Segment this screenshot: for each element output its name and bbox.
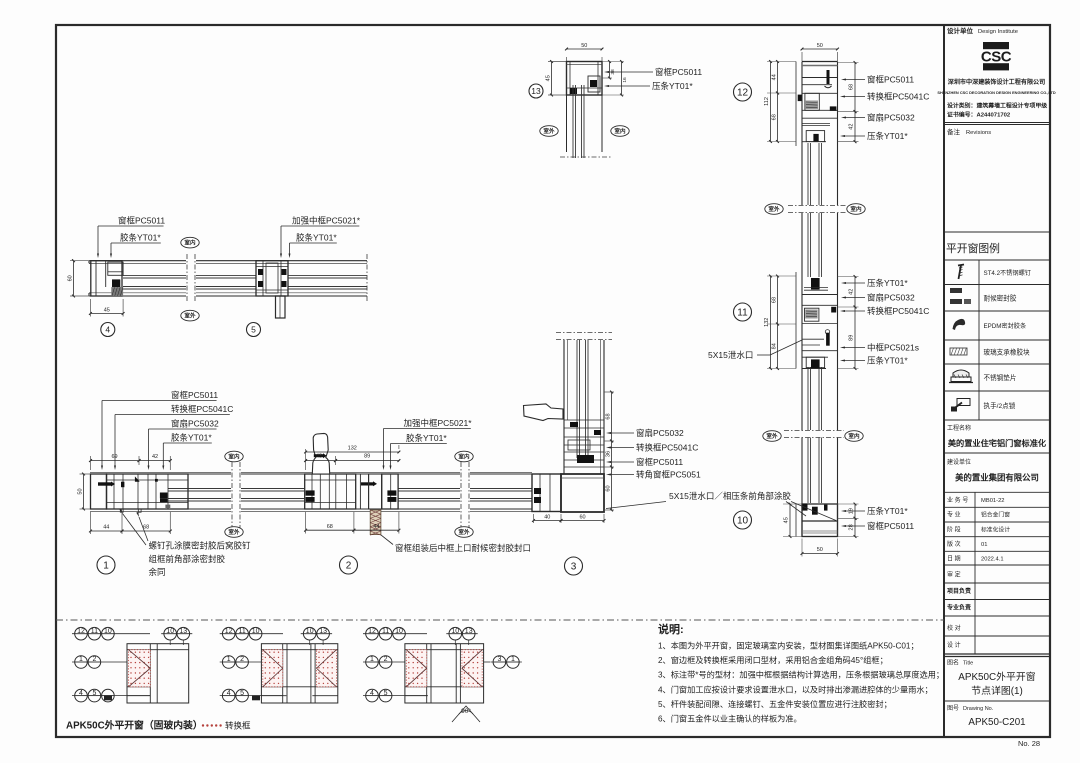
svg-text:43: 43 bbox=[316, 454, 322, 460]
svg-text:SHENZHEN CSC DECORATION DESIGN: SHENZHEN CSC DECORATION DESIGN ENGINEERI… bbox=[937, 90, 1055, 95]
svg-text:MB01-22: MB01-22 bbox=[981, 498, 1005, 504]
svg-text:5: 5 bbox=[384, 690, 388, 697]
svg-text:5、杆件装配间隙、连接螺钉、五金件安装位置应进行注胶密封；: 5、杆件装配间隙、连接螺钉、五金件安装位置应进行注胶密封； bbox=[658, 699, 892, 709]
svg-text:50: 50 bbox=[817, 43, 823, 49]
svg-text:44: 44 bbox=[772, 74, 778, 80]
svg-text:5: 5 bbox=[92, 690, 96, 697]
svg-text:50: 50 bbox=[78, 488, 84, 494]
svg-text:28: 28 bbox=[849, 524, 855, 530]
svg-text:132: 132 bbox=[348, 446, 357, 452]
svg-text:中框PC5021s: 中框PC5021s bbox=[867, 343, 919, 353]
svg-text:转换框PC5041C: 转换框PC5041C bbox=[867, 306, 929, 316]
svg-text:窗扇PC5032: 窗扇PC5032 bbox=[867, 113, 915, 123]
svg-text:转换框PC5041C: 转换框PC5041C bbox=[867, 92, 929, 102]
svg-text:13: 13 bbox=[179, 628, 187, 635]
svg-text:3、标注带*号的型材：加强中框根据结构计算选用，压条根据玻璃: 3、标注带*号的型材：加强中框根据结构计算选用，压条根据玻璃总厚度选用； bbox=[658, 670, 944, 680]
svg-text:螺钉孔涂膜密封胶后窝胶钉: 螺钉孔涂膜密封胶后窝胶钉 bbox=[149, 541, 252, 551]
svg-text:项目负责: 项目负责 bbox=[947, 587, 971, 595]
svg-text:业 务 号: 业 务 号 bbox=[947, 496, 968, 504]
svg-text:室内: 室内 bbox=[614, 127, 626, 135]
svg-text:13: 13 bbox=[531, 86, 541, 96]
svg-text:Title: Title bbox=[963, 661, 973, 667]
svg-text:No. 28: No. 28 bbox=[1018, 739, 1040, 748]
svg-text:转换框PC5041C: 转换框PC5041C bbox=[636, 443, 698, 453]
svg-text:室外: 室外 bbox=[184, 312, 196, 320]
svg-text:42: 42 bbox=[152, 454, 158, 460]
svg-text:68: 68 bbox=[772, 114, 778, 120]
svg-text:16: 16 bbox=[622, 77, 628, 83]
svg-text:平开窗图例: 平开窗图例 bbox=[946, 241, 1000, 255]
svg-text:工程名称: 工程名称 bbox=[947, 424, 971, 432]
svg-text:窗框PC5011: 窗框PC5011 bbox=[636, 457, 683, 467]
svg-text:余同: 余同 bbox=[149, 567, 166, 577]
svg-text:10: 10 bbox=[104, 628, 112, 635]
svg-text:42: 42 bbox=[849, 289, 855, 295]
svg-text:玻璃支承橡胶块: 玻璃支承橡胶块 bbox=[984, 348, 1031, 357]
svg-text:加强中框PC5021*: 加强中框PC5021* bbox=[292, 216, 361, 226]
svg-text:备注: 备注 bbox=[947, 127, 961, 136]
svg-text:版 次: 版 次 bbox=[947, 540, 961, 548]
svg-text:68: 68 bbox=[849, 84, 855, 90]
svg-text:13: 13 bbox=[319, 628, 327, 635]
svg-text:1、本图为外平开窗，固定玻璃室内安装，型材图集详图纸APK5: 1、本图为外平开窗，固定玻璃室内安装，型材图集详图纸APK50-C01； bbox=[658, 641, 919, 651]
svg-text:45: 45 bbox=[784, 517, 790, 523]
svg-text:胶条YT01*: 胶条YT01* bbox=[171, 433, 212, 443]
svg-text:Drawing No.: Drawing No. bbox=[963, 706, 994, 712]
svg-text:压条YT01*: 压条YT01* bbox=[867, 278, 908, 288]
svg-text:3: 3 bbox=[571, 562, 577, 573]
svg-text:42: 42 bbox=[849, 124, 855, 130]
svg-text:69: 69 bbox=[111, 454, 117, 460]
svg-text:室内: 室内 bbox=[458, 453, 470, 461]
svg-text:窗框PC5011: 窗框PC5011 bbox=[171, 390, 218, 400]
svg-text:12: 12 bbox=[737, 88, 749, 99]
svg-text:68: 68 bbox=[606, 413, 612, 419]
svg-text:11: 11 bbox=[238, 628, 245, 635]
svg-text:4、门窗加工应按设计要求设置泄水口，以及时排出渗漏进腔体的少: 4、门窗加工应按设计要求设置泄水口，以及时排出渗漏进腔体的少量雨水； bbox=[658, 684, 933, 694]
svg-text:4: 4 bbox=[370, 690, 374, 697]
svg-text:窗框PC5011: 窗框PC5011 bbox=[867, 75, 914, 85]
svg-text:组框前角部涂密封胶: 组框前角部涂密封胶 bbox=[149, 554, 226, 564]
svg-text:审 定: 审 定 bbox=[947, 571, 961, 579]
svg-text:2022.4.1: 2022.4.1 bbox=[981, 557, 1004, 563]
svg-text:APK50-C201: APK50-C201 bbox=[968, 717, 1025, 728]
svg-text:窗扇PC5032: 窗扇PC5032 bbox=[867, 293, 915, 303]
svg-text:专业负责: 专业负责 bbox=[947, 604, 971, 612]
svg-text:压条YT01*: 压条YT01* bbox=[652, 81, 693, 91]
svg-text:11: 11 bbox=[382, 628, 389, 635]
svg-text:耐候密封胶: 耐候密封胶 bbox=[984, 293, 1017, 302]
svg-text:阶 段: 阶 段 bbox=[947, 526, 961, 534]
svg-text:12: 12 bbox=[225, 628, 233, 635]
svg-text:60: 60 bbox=[606, 485, 612, 491]
svg-text:室内: 室内 bbox=[848, 432, 860, 440]
svg-text:5X15泄水口／相压条前角部涂胶: 5X15泄水口／相压条前角部涂胶 bbox=[669, 491, 791, 501]
svg-text:2: 2 bbox=[384, 656, 388, 663]
svg-text:深圳市中深建装饰设计工程有限公司: 深圳市中深建装饰设计工程有限公司 bbox=[948, 78, 1046, 86]
svg-text:室外: 室外 bbox=[458, 528, 470, 536]
svg-text:室外: 室外 bbox=[228, 528, 240, 536]
svg-text:10: 10 bbox=[306, 628, 314, 635]
svg-text:45: 45 bbox=[104, 308, 110, 314]
svg-text:13: 13 bbox=[465, 628, 473, 635]
svg-text:说明:: 说明: bbox=[658, 622, 684, 636]
svg-text:转换框: 转换框 bbox=[225, 721, 251, 731]
svg-text:4: 4 bbox=[227, 690, 231, 697]
svg-text:1: 1 bbox=[79, 656, 83, 663]
svg-text:44: 44 bbox=[103, 525, 109, 531]
svg-text:10: 10 bbox=[395, 628, 403, 635]
svg-text:专 业: 专 业 bbox=[947, 511, 961, 519]
svg-text:5: 5 bbox=[251, 325, 256, 335]
svg-text:11: 11 bbox=[737, 308, 748, 319]
svg-text:12: 12 bbox=[77, 628, 85, 635]
svg-text:ST4.2不锈钢螺钉: ST4.2不锈钢螺钉 bbox=[984, 269, 1031, 277]
svg-text:标准化设计: 标准化设计 bbox=[981, 526, 1010, 534]
svg-text:6、门窗五金件以业主确认的样板为准。: 6、门窗五金件以业主确认的样板为准。 bbox=[658, 714, 802, 724]
svg-text:美的置业集团有限公司: 美的置业集团有限公司 bbox=[955, 473, 1039, 483]
svg-text:10: 10 bbox=[166, 628, 174, 635]
svg-text:设计类别：建筑幕墙工程设计专项甲级: 设计类别：建筑幕墙工程设计专项甲级 bbox=[947, 102, 1047, 110]
svg-text:40: 40 bbox=[544, 515, 550, 521]
svg-text:CSC: CSC bbox=[981, 49, 1012, 66]
svg-text:转角窗框PC5051: 转角窗框PC5051 bbox=[636, 470, 701, 480]
svg-text:窗扇PC5032: 窗扇PC5032 bbox=[636, 428, 684, 438]
svg-text:窗框PC5011: 窗框PC5011 bbox=[867, 521, 914, 531]
svg-text:45: 45 bbox=[546, 75, 552, 81]
svg-text:60: 60 bbox=[68, 275, 74, 281]
svg-text:50: 50 bbox=[817, 547, 823, 553]
svg-text:转换框PC5041C: 转换框PC5041C bbox=[171, 404, 233, 414]
svg-text:室外: 室外 bbox=[543, 127, 555, 135]
svg-text:不锈钢垫片: 不锈钢垫片 bbox=[984, 373, 1017, 382]
svg-text:Revisions: Revisions bbox=[966, 130, 991, 136]
svg-text:室外: 室外 bbox=[768, 205, 780, 213]
svg-text:10: 10 bbox=[451, 628, 459, 635]
svg-text:4: 4 bbox=[79, 690, 83, 697]
svg-text:1: 1 bbox=[227, 656, 231, 663]
svg-text:窗扇PC5032: 窗扇PC5032 bbox=[171, 419, 219, 429]
svg-text:132: 132 bbox=[764, 318, 770, 327]
svg-text:窗框PC5011: 窗框PC5011 bbox=[118, 216, 165, 226]
svg-text:美的置业住宅铝门窗标准化: 美的置业住宅铝门窗标准化 bbox=[948, 438, 1047, 448]
svg-text:5: 5 bbox=[240, 690, 244, 697]
svg-text:84: 84 bbox=[772, 343, 778, 349]
svg-text:68: 68 bbox=[772, 297, 778, 303]
svg-text:APK50C外平开窗（固玻内装）: APK50C外平开窗（固玻内装） bbox=[66, 719, 203, 732]
svg-text:执手/2点锁: 执手/2点锁 bbox=[984, 401, 1016, 410]
svg-text:5X15泄水口: 5X15泄水口 bbox=[708, 350, 753, 360]
svg-text:设 计: 设 计 bbox=[947, 641, 961, 649]
svg-text:室内: 室内 bbox=[184, 239, 196, 247]
svg-text:60: 60 bbox=[579, 515, 585, 521]
svg-text:节点详图(1): 节点详图(1) bbox=[971, 684, 1023, 697]
svg-text:Design Institute: Design Institute bbox=[978, 29, 1018, 35]
svg-text:胶条YT01*: 胶条YT01* bbox=[406, 433, 447, 443]
svg-text:室外: 室外 bbox=[766, 432, 778, 440]
svg-text:68: 68 bbox=[327, 524, 333, 530]
svg-text:2: 2 bbox=[346, 561, 352, 572]
svg-text:11: 11 bbox=[91, 628, 98, 635]
svg-text:铝合金门窗: 铝合金门窗 bbox=[981, 511, 1010, 519]
svg-text:加强中框PC5021*: 加强中框PC5021* bbox=[404, 418, 473, 428]
svg-text:证书编号：A244071702: 证书编号：A244071702 bbox=[947, 111, 1011, 119]
svg-text:90°: 90° bbox=[461, 707, 471, 715]
svg-text:胶条YT01*: 胶条YT01* bbox=[296, 233, 337, 243]
svg-text:2: 2 bbox=[240, 656, 244, 663]
svg-text:12: 12 bbox=[368, 628, 376, 635]
svg-text:校 对: 校 对 bbox=[947, 624, 961, 632]
svg-text:EPDM密封胶条: EPDM密封胶条 bbox=[984, 322, 1027, 330]
svg-text:1: 1 bbox=[370, 656, 374, 663]
svg-text:图号: 图号 bbox=[947, 705, 959, 712]
svg-text:36: 36 bbox=[606, 451, 612, 457]
svg-text:压条YT01*: 压条YT01* bbox=[867, 131, 908, 141]
svg-text:建设单位: 建设单位 bbox=[947, 458, 971, 466]
svg-text:10: 10 bbox=[252, 628, 260, 635]
svg-text:4: 4 bbox=[105, 325, 110, 335]
svg-text:窗框PC5011: 窗框PC5011 bbox=[655, 67, 702, 77]
svg-text:112: 112 bbox=[764, 97, 770, 106]
svg-text:89: 89 bbox=[849, 335, 855, 341]
svg-text:50: 50 bbox=[581, 43, 587, 49]
svg-text:2、窗边框及转换框采用闭口型材，采用铝合金组角码45°组框；: 2、窗边框及转换框采用闭口型材，采用铝合金组角码45°组框； bbox=[658, 655, 888, 665]
svg-text:2: 2 bbox=[92, 656, 96, 663]
svg-text:APK50C外平开窗: APK50C外平开窗 bbox=[958, 670, 1036, 683]
svg-text:图名: 图名 bbox=[947, 659, 959, 667]
svg-text:设计单位: 设计单位 bbox=[947, 26, 974, 35]
svg-text:室内: 室内 bbox=[228, 453, 240, 461]
svg-text:10: 10 bbox=[737, 516, 749, 527]
svg-text:压条YT01*: 压条YT01* bbox=[867, 506, 908, 516]
svg-text:压条YT01*: 压条YT01* bbox=[867, 356, 908, 366]
svg-text:01: 01 bbox=[981, 542, 987, 548]
svg-text:44: 44 bbox=[373, 524, 379, 530]
svg-text:89: 89 bbox=[364, 454, 370, 460]
svg-text:窗框组装后中框上口耐候密封胶封口: 窗框组装后中框上口耐候密封胶封口 bbox=[395, 543, 531, 553]
svg-text:1: 1 bbox=[511, 656, 515, 663]
svg-text:日 期: 日 期 bbox=[947, 555, 961, 563]
svg-text:3: 3 bbox=[497, 656, 501, 663]
svg-text:1: 1 bbox=[103, 561, 109, 572]
svg-text:胶条YT01*: 胶条YT01* bbox=[120, 233, 161, 243]
svg-text:室内: 室内 bbox=[850, 205, 862, 213]
